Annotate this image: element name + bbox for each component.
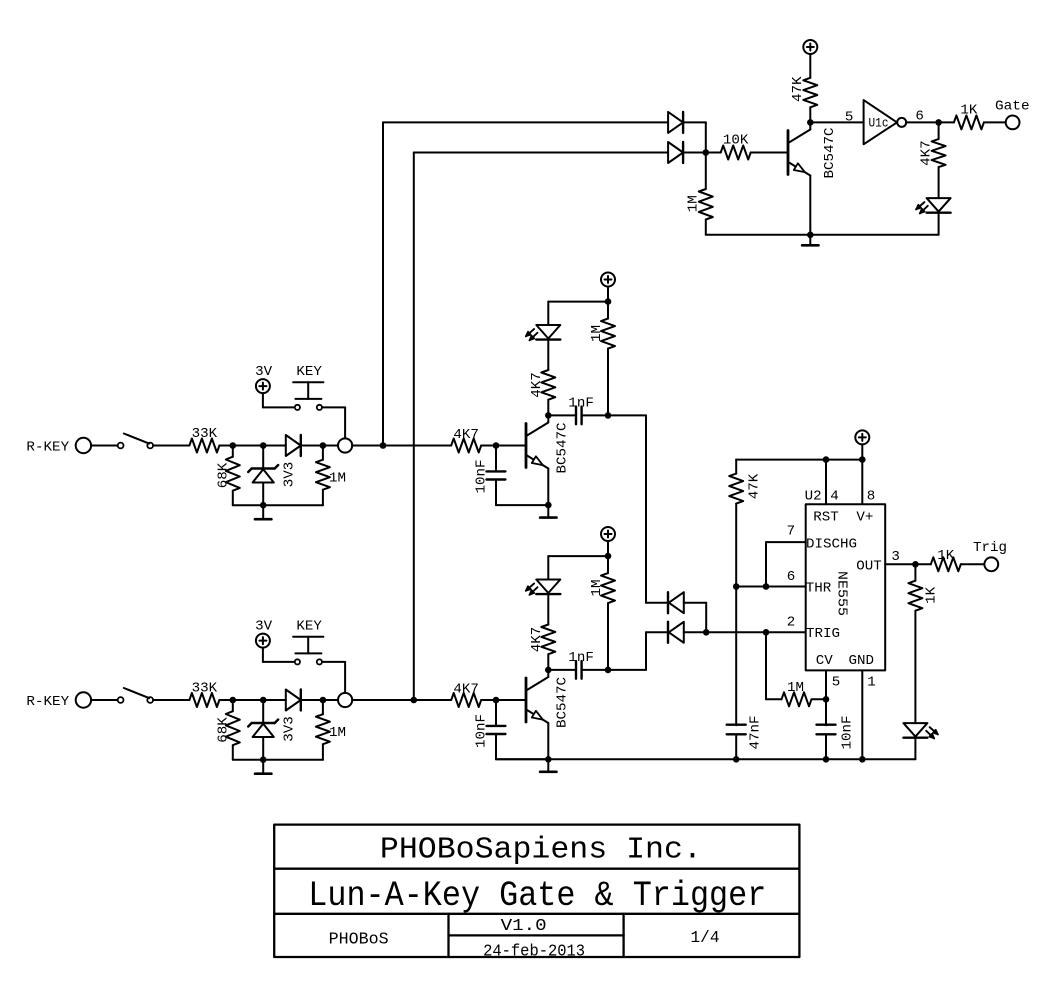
svg-text:10nF: 10nF xyxy=(474,460,490,494)
svg-text:RST: RST xyxy=(813,510,839,526)
svg-text:Trig: Trig xyxy=(973,540,1007,556)
svg-text:4K7: 4K7 xyxy=(529,372,545,398)
svg-text:2: 2 xyxy=(787,614,796,630)
svg-text:33K: 33K xyxy=(192,680,218,696)
svg-text:68K: 68K xyxy=(216,717,232,743)
svg-text:47K: 47K xyxy=(790,76,806,102)
svg-text:4K7: 4K7 xyxy=(453,427,479,443)
svg-text:10nF: 10nF xyxy=(840,716,856,750)
svg-text:U1c: U1c xyxy=(869,117,889,131)
svg-text:47nF: 47nF xyxy=(748,716,764,750)
svg-text:CV: CV xyxy=(816,653,834,669)
svg-text:GND: GND xyxy=(849,653,875,669)
svg-text:10K: 10K xyxy=(723,133,749,149)
svg-text:R-KEY: R-KEY xyxy=(26,694,69,710)
svg-text:V1.0: V1.0 xyxy=(501,916,547,935)
svg-text:Lun-A-Key Gate & Trigger: Lun-A-Key Gate & Trigger xyxy=(308,875,766,916)
svg-text:5: 5 xyxy=(845,109,854,125)
svg-text:U2: U2 xyxy=(805,489,822,505)
svg-text:1M: 1M xyxy=(589,325,605,342)
svg-text:6: 6 xyxy=(787,569,796,585)
svg-text:Gate: Gate xyxy=(995,98,1030,114)
svg-text:33K: 33K xyxy=(192,426,218,442)
svg-text:TRIG: TRIG xyxy=(806,626,840,642)
svg-text:10nF: 10nF xyxy=(474,714,490,748)
svg-text:PHOBoSapiens Inc.: PHOBoSapiens Inc. xyxy=(380,834,702,868)
svg-text:4K7: 4K7 xyxy=(453,682,479,698)
svg-text:1/4: 1/4 xyxy=(691,929,720,948)
svg-text:1nF: 1nF xyxy=(568,395,594,411)
svg-text:6: 6 xyxy=(915,108,924,124)
svg-text:BC547C: BC547C xyxy=(555,677,571,728)
svg-text:3V3: 3V3 xyxy=(282,716,298,742)
svg-text:1M: 1M xyxy=(686,195,702,212)
svg-text:1nF: 1nF xyxy=(568,650,594,666)
svg-text:3: 3 xyxy=(891,549,900,565)
svg-text:3V: 3V xyxy=(255,364,273,380)
svg-text:PHOBoS: PHOBoS xyxy=(329,931,389,950)
svg-text:3V: 3V xyxy=(255,618,273,634)
svg-text:1M: 1M xyxy=(329,725,346,741)
svg-text:47K: 47K xyxy=(747,473,763,499)
svg-text:1K: 1K xyxy=(924,586,940,604)
svg-text:THR: THR xyxy=(806,581,832,597)
svg-text:5: 5 xyxy=(832,675,841,691)
svg-text:1M: 1M xyxy=(329,471,346,487)
svg-text:4K7: 4K7 xyxy=(529,627,545,653)
svg-text:1M: 1M xyxy=(589,580,605,597)
svg-text:V+: V+ xyxy=(856,510,873,526)
svg-text:8: 8 xyxy=(867,489,876,505)
svg-text:7: 7 xyxy=(787,524,796,540)
svg-text:1M: 1M xyxy=(787,680,804,696)
svg-text:KEY: KEY xyxy=(296,364,322,380)
svg-text:3V3: 3V3 xyxy=(282,462,298,488)
svg-text:BC547C: BC547C xyxy=(555,423,571,474)
svg-text:24-feb-2013: 24-feb-2013 xyxy=(483,941,585,960)
svg-text:68K: 68K xyxy=(216,462,232,488)
svg-text:R-KEY: R-KEY xyxy=(26,440,69,456)
svg-text:BC547C: BC547C xyxy=(822,128,838,179)
svg-text:4K7: 4K7 xyxy=(919,140,935,166)
svg-text:OUT: OUT xyxy=(856,558,882,574)
svg-text:NE555: NE555 xyxy=(834,571,850,616)
svg-text:DISCHG: DISCHG xyxy=(806,537,857,553)
svg-text:1: 1 xyxy=(867,675,876,691)
svg-text:1K: 1K xyxy=(960,102,978,118)
svg-text:KEY: KEY xyxy=(296,618,322,634)
svg-text:4: 4 xyxy=(830,489,839,505)
svg-text:1K: 1K xyxy=(937,548,955,564)
